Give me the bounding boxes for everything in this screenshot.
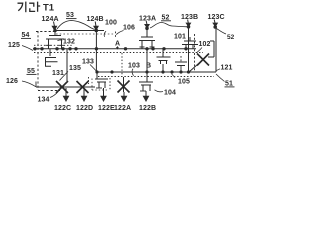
svg-text:122C: 122C bbox=[54, 105, 71, 112]
vertical wire x=216 bbox=[215, 28, 217, 72]
wire 53 hump (wavy) bbox=[57, 21, 95, 30]
svg-text:53: 53 bbox=[66, 12, 74, 19]
leader 103 bbox=[132, 69, 133, 76]
dashed vertical x=194.5 bbox=[194, 34, 196, 71]
arrow 123C bbox=[213, 20, 216, 24]
capacitor right (cx 181) bbox=[175, 56, 187, 72]
leader 132 bbox=[57, 39, 62, 42]
vertical into X2 bbox=[88, 77, 90, 84]
transistor 122E bottom (cx 101.5) bbox=[95, 72, 108, 88]
dashed line y=90.5 bbox=[38, 90, 60, 92]
arrow 124B bbox=[94, 22, 97, 27]
arrow 122E bbox=[103, 88, 105, 96]
leader 104 bbox=[155, 90, 164, 92]
arrow 122A bbox=[123, 92, 125, 96]
dotted vertical x=110 bbox=[109, 78, 111, 90]
X mark X4 bbox=[197, 54, 209, 66]
vertical B net x=147 bbox=[146, 49, 148, 82]
hook at x=36 bbox=[35, 82, 37, 88]
leader 100 bbox=[104, 31, 106, 37]
leader 106 bbox=[116, 31, 123, 35]
svg-text:125: 125 bbox=[8, 42, 20, 49]
svg-text:132: 132 bbox=[63, 39, 75, 46]
vertical wire x=96.5 bbox=[95, 31, 97, 73]
transistor below bus left (cap 131 stack) bbox=[49, 49, 51, 56]
svg-text:106: 106 bbox=[123, 25, 135, 32]
svg-text:52: 52 bbox=[227, 34, 235, 41]
capacitor 131 bbox=[46, 58, 58, 67]
wire corner at x=115 down bbox=[115, 32, 117, 39]
A tick to bus bbox=[116, 46, 118, 47]
svg-text:124A: 124A bbox=[42, 16, 59, 23]
bus A dotted y=51 bbox=[34, 52, 203, 54]
title 기간 T1 bbox=[18, 2, 41, 13]
dotted line y=45 bbox=[34, 44, 72, 46]
svg-text:105: 105 bbox=[178, 79, 190, 86]
svg-text:122D: 122D bbox=[76, 105, 93, 112]
leader to 52 right bbox=[217, 29, 227, 35]
arrow 122D bbox=[83, 88, 85, 96]
bus B solid y=72.5 bbox=[96, 71, 216, 73]
bus B dotted y=77 bbox=[98, 76, 214, 78]
leader 102 bbox=[197, 48, 203, 53]
svg-text:123A: 123A bbox=[139, 16, 156, 23]
arrow 122C bbox=[65, 88, 67, 96]
leader 135 bbox=[60, 72, 69, 81]
svg-text:103: 103 bbox=[128, 63, 140, 70]
arrow 123A bbox=[145, 21, 148, 25]
leader 125 bbox=[22, 46, 33, 51]
wire through X4 bbox=[189, 64, 198, 72]
svg-text:104: 104 bbox=[164, 90, 176, 97]
node dot 123C bbox=[213, 25, 217, 29]
arrow 122B bbox=[145, 91, 147, 96]
vertical wire x=188.5 bbox=[188, 27, 190, 72]
wire 53 (top-left horizontal wire y=31) bbox=[36, 31, 54, 33]
svg-text:121: 121 bbox=[221, 65, 233, 72]
transistor 101 bbox=[139, 30, 155, 49]
svg-text:134: 134 bbox=[38, 97, 50, 104]
leader 134 bbox=[50, 92, 58, 98]
arrow 123B bbox=[187, 20, 190, 24]
X mark X3 bbox=[118, 81, 130, 93]
vertical into X3 bbox=[123, 77, 125, 92]
svg-text:122B: 122B bbox=[139, 105, 156, 112]
node dot 123A bbox=[145, 27, 149, 31]
svg-text:51: 51 bbox=[225, 81, 233, 88]
leader 121 bbox=[216, 69, 220, 71]
svg-text:102: 102 bbox=[199, 41, 211, 48]
bus A solid y=48 bbox=[33, 48, 196, 50]
node dot 124B bbox=[95, 29, 99, 33]
leader 51 bbox=[216, 74, 225, 82]
arrow 124A bbox=[54, 22, 55, 27]
leader 126 bbox=[22, 81, 36, 87]
svg-text:122A: 122A bbox=[114, 105, 131, 112]
dotted vertical x=122 bbox=[121, 53, 123, 77]
svg-text:135: 135 bbox=[69, 65, 81, 72]
svg-text:131: 131 bbox=[52, 70, 64, 77]
svg-text:122E: 122E bbox=[98, 105, 115, 112]
svg-text:123B: 123B bbox=[181, 14, 198, 21]
svg-text:133: 133 bbox=[82, 59, 94, 66]
svg-text:T1: T1 bbox=[43, 2, 55, 13]
capacitor/transistor 102 bbox=[182, 37, 198, 49]
svg-text:123C: 123C bbox=[208, 14, 225, 21]
junction dots bus A bbox=[33, 47, 187, 50]
transistor 104 bottom (cx 146) bbox=[139, 82, 153, 91]
wire 126 horizontal y=87 bbox=[36, 86, 95, 88]
leader 133 bbox=[90, 65, 97, 72]
dashed vertical line 54/55 bbox=[37, 31, 39, 90]
svg-text:126: 126 bbox=[6, 78, 18, 85]
X mark X1 bbox=[56, 81, 68, 93]
wire 52 (wavy segment) bbox=[150, 22, 187, 28]
transistor below bus right (cx 163) bbox=[157, 49, 171, 72]
svg-text:101: 101 bbox=[174, 34, 186, 41]
X mark X2 bbox=[77, 81, 89, 93]
node dot 123B bbox=[187, 25, 191, 29]
vertical into X1 bbox=[66, 49, 68, 81]
junction dots bus B bbox=[95, 70, 190, 73]
node dot 124A bbox=[53, 29, 57, 33]
svg-text:100: 100 bbox=[105, 20, 117, 27]
transistor 132 bbox=[46, 31, 65, 49]
svg-text:55: 55 bbox=[27, 68, 35, 75]
